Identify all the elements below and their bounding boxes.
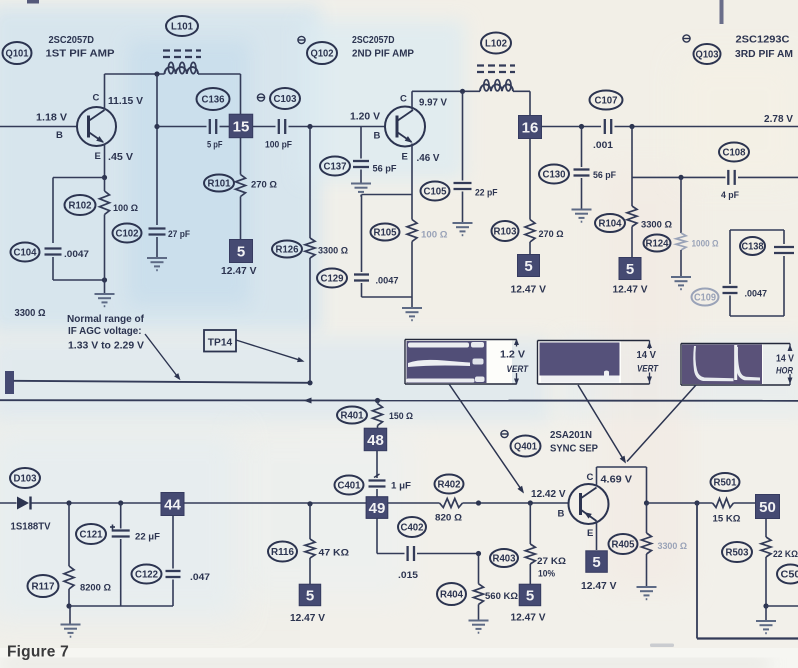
svg-text:C122: C122 (135, 570, 158, 581)
svg-text:Q401: Q401 (514, 442, 537, 453)
svg-text:47 KΩ: 47 KΩ (319, 548, 350, 559)
svg-text:.46 V: .46 V (417, 153, 440, 164)
svg-text:C136: C136 (202, 95, 225, 106)
svg-text:3300 Ω: 3300 Ω (318, 246, 348, 257)
svg-text:.015: .015 (398, 570, 419, 581)
svg-text:B: B (374, 131, 381, 142)
svg-text:1 μF: 1 μF (391, 481, 411, 492)
svg-text:C: C (400, 94, 407, 105)
svg-text:14 V: 14 V (637, 349, 657, 361)
svg-text:C103: C103 (274, 94, 297, 105)
svg-text:HOR: HOR (776, 366, 793, 376)
svg-text:C104: C104 (14, 248, 37, 259)
svg-text:100 pF: 100 pF (265, 140, 292, 151)
svg-text:150 Ω: 150 Ω (389, 411, 413, 422)
svg-text:15: 15 (233, 118, 250, 135)
svg-text:.45 V: .45 V (108, 152, 133, 163)
svg-text:1S188TV: 1S188TV (11, 522, 51, 533)
svg-text:R404: R404 (440, 590, 463, 601)
svg-text:12.47 V: 12.47 V (221, 265, 257, 277)
svg-text:R503: R503 (726, 548, 749, 559)
svg-text:44: 44 (164, 496, 181, 513)
svg-text:R104: R104 (599, 219, 622, 230)
svg-text:Figure 7: Figure 7 (7, 644, 69, 661)
svg-text:8200 Ω: 8200 Ω (80, 583, 111, 594)
svg-text:R124: R124 (646, 239, 669, 250)
svg-text:C138: C138 (742, 242, 764, 253)
svg-text:C50: C50 (781, 570, 798, 581)
svg-text:TP14: TP14 (208, 338, 233, 349)
svg-text:3300 Ω: 3300 Ω (15, 308, 46, 319)
svg-text:C102: C102 (116, 229, 139, 240)
svg-text:1.18 V: 1.18 V (36, 113, 67, 124)
svg-text:C107: C107 (595, 96, 618, 107)
svg-text:.047: .047 (190, 572, 210, 583)
svg-text:5: 5 (526, 587, 534, 604)
svg-text:2ND PIF AMP: 2ND PIF AMP (352, 49, 414, 60)
svg-text:22 pF: 22 pF (475, 188, 498, 199)
svg-text:C130: C130 (543, 170, 566, 181)
svg-text:5: 5 (306, 587, 314, 604)
svg-text:B: B (56, 130, 63, 141)
svg-text:.0047: .0047 (745, 289, 768, 300)
svg-text:.001: .001 (593, 140, 614, 151)
svg-text:5 pF: 5 pF (207, 140, 223, 151)
svg-text:12.42 V: 12.42 V (531, 488, 566, 500)
svg-text:11.15 V: 11.15 V (108, 96, 143, 107)
svg-text:R403: R403 (493, 554, 516, 565)
svg-text:VERT: VERT (637, 364, 659, 374)
svg-text:9.97 V: 9.97 V (419, 98, 447, 109)
svg-text:3300 Ω: 3300 Ω (641, 220, 672, 231)
svg-text:.0047: .0047 (64, 249, 89, 260)
svg-text:L101: L101 (171, 22, 193, 33)
svg-text:12.47 V: 12.47 V (511, 284, 547, 296)
svg-text:5: 5 (237, 243, 245, 260)
svg-text:R126: R126 (276, 245, 299, 256)
svg-text:R101: R101 (208, 179, 231, 190)
svg-text:C109: C109 (694, 293, 716, 304)
svg-text:1.33 V to 2.29 V: 1.33 V to 2.29 V (68, 341, 144, 352)
svg-text:1000 Ω: 1000 Ω (692, 239, 719, 250)
svg-text:16: 16 (522, 119, 539, 136)
svg-text:R102: R102 (69, 201, 92, 212)
svg-text:C137: C137 (324, 162, 347, 173)
svg-text:2SC1293C: 2SC1293C (736, 35, 790, 46)
svg-text:Q101: Q101 (6, 49, 29, 60)
svg-text:12.47 V: 12.47 V (581, 580, 617, 592)
svg-text:R117: R117 (32, 582, 55, 593)
svg-text:R116: R116 (271, 547, 294, 558)
svg-text:4 pF: 4 pF (721, 190, 739, 201)
svg-text:14 V: 14 V (776, 353, 794, 365)
svg-text:48: 48 (367, 432, 384, 449)
svg-text:1.20 V: 1.20 V (350, 112, 380, 123)
svg-text:B: B (558, 509, 565, 520)
svg-text:12.47 V: 12.47 V (511, 612, 546, 624)
svg-text:C: C (93, 93, 100, 104)
svg-text:R105: R105 (374, 228, 397, 239)
svg-text:56 pF: 56 pF (373, 164, 397, 175)
svg-text:D103: D103 (14, 474, 37, 485)
svg-text:SYNC SEP: SYNC SEP (550, 443, 598, 455)
svg-text:R405: R405 (612, 540, 635, 551)
svg-text:C108: C108 (723, 148, 746, 159)
svg-text:R501: R501 (714, 478, 737, 489)
svg-text:3300 Ω: 3300 Ω (658, 541, 688, 552)
svg-text:L102: L102 (485, 39, 507, 50)
svg-text:1ST PIF AMP: 1ST PIF AMP (46, 49, 115, 60)
svg-text:2SC2057D: 2SC2057D (352, 35, 395, 46)
svg-text:E: E (95, 151, 101, 162)
svg-text:C402: C402 (401, 523, 424, 534)
svg-text:R402: R402 (438, 480, 461, 491)
svg-text:15 KΩ: 15 KΩ (713, 514, 741, 525)
svg-text:Q102: Q102 (311, 49, 334, 60)
svg-text:2SC2057D: 2SC2057D (49, 35, 95, 46)
svg-text:E: E (587, 528, 593, 539)
svg-text:12.47 V: 12.47 V (290, 612, 325, 624)
svg-text:IF AGC voltage:: IF AGC voltage: (68, 326, 142, 337)
svg-text:5: 5 (524, 258, 532, 275)
svg-text:VERT: VERT (507, 364, 530, 374)
svg-text:5: 5 (592, 554, 600, 571)
svg-text:Normal range of: Normal range of (67, 314, 145, 325)
svg-text:5: 5 (626, 261, 634, 278)
svg-text:100 Ω: 100 Ω (113, 203, 138, 214)
svg-text:R401: R401 (341, 411, 364, 422)
svg-text:E: E (402, 152, 408, 163)
svg-text:22 KΩ: 22 KΩ (773, 549, 798, 560)
svg-text:270 Ω: 270 Ω (539, 229, 564, 240)
svg-text:27 KΩ: 27 KΩ (537, 556, 566, 567)
svg-text:27 pF: 27 pF (168, 229, 190, 240)
svg-text:56 pF: 56 pF (593, 170, 616, 181)
svg-text:.0047: .0047 (376, 276, 399, 287)
svg-text:50: 50 (759, 499, 776, 516)
svg-text:22 μF: 22 μF (135, 532, 160, 543)
svg-text:49: 49 (369, 500, 386, 517)
svg-text:C: C (587, 472, 594, 483)
svg-text:C105: C105 (424, 187, 447, 198)
svg-text:820 Ω: 820 Ω (435, 513, 462, 524)
svg-text:3RD PIF AM: 3RD PIF AM (735, 49, 793, 60)
svg-text:4.69 V: 4.69 V (601, 474, 633, 486)
svg-text:100 Ω: 100 Ω (421, 230, 448, 241)
svg-text:10%: 10% (538, 569, 555, 580)
svg-text:560 KΩ: 560 KΩ (485, 591, 518, 602)
svg-text:2SA201N: 2SA201N (550, 429, 592, 441)
svg-text:Q103: Q103 (696, 50, 719, 61)
svg-text:270 Ω: 270 Ω (251, 180, 277, 191)
svg-text:2.78 V: 2.78 V (764, 113, 793, 125)
svg-text:C121: C121 (80, 530, 103, 541)
svg-text:12.47 V: 12.47 V (613, 284, 648, 296)
svg-text:1.2 V: 1.2 V (500, 349, 525, 361)
svg-text:R103: R103 (494, 227, 517, 238)
svg-text:C129: C129 (321, 274, 344, 285)
svg-text:C401: C401 (338, 481, 361, 492)
